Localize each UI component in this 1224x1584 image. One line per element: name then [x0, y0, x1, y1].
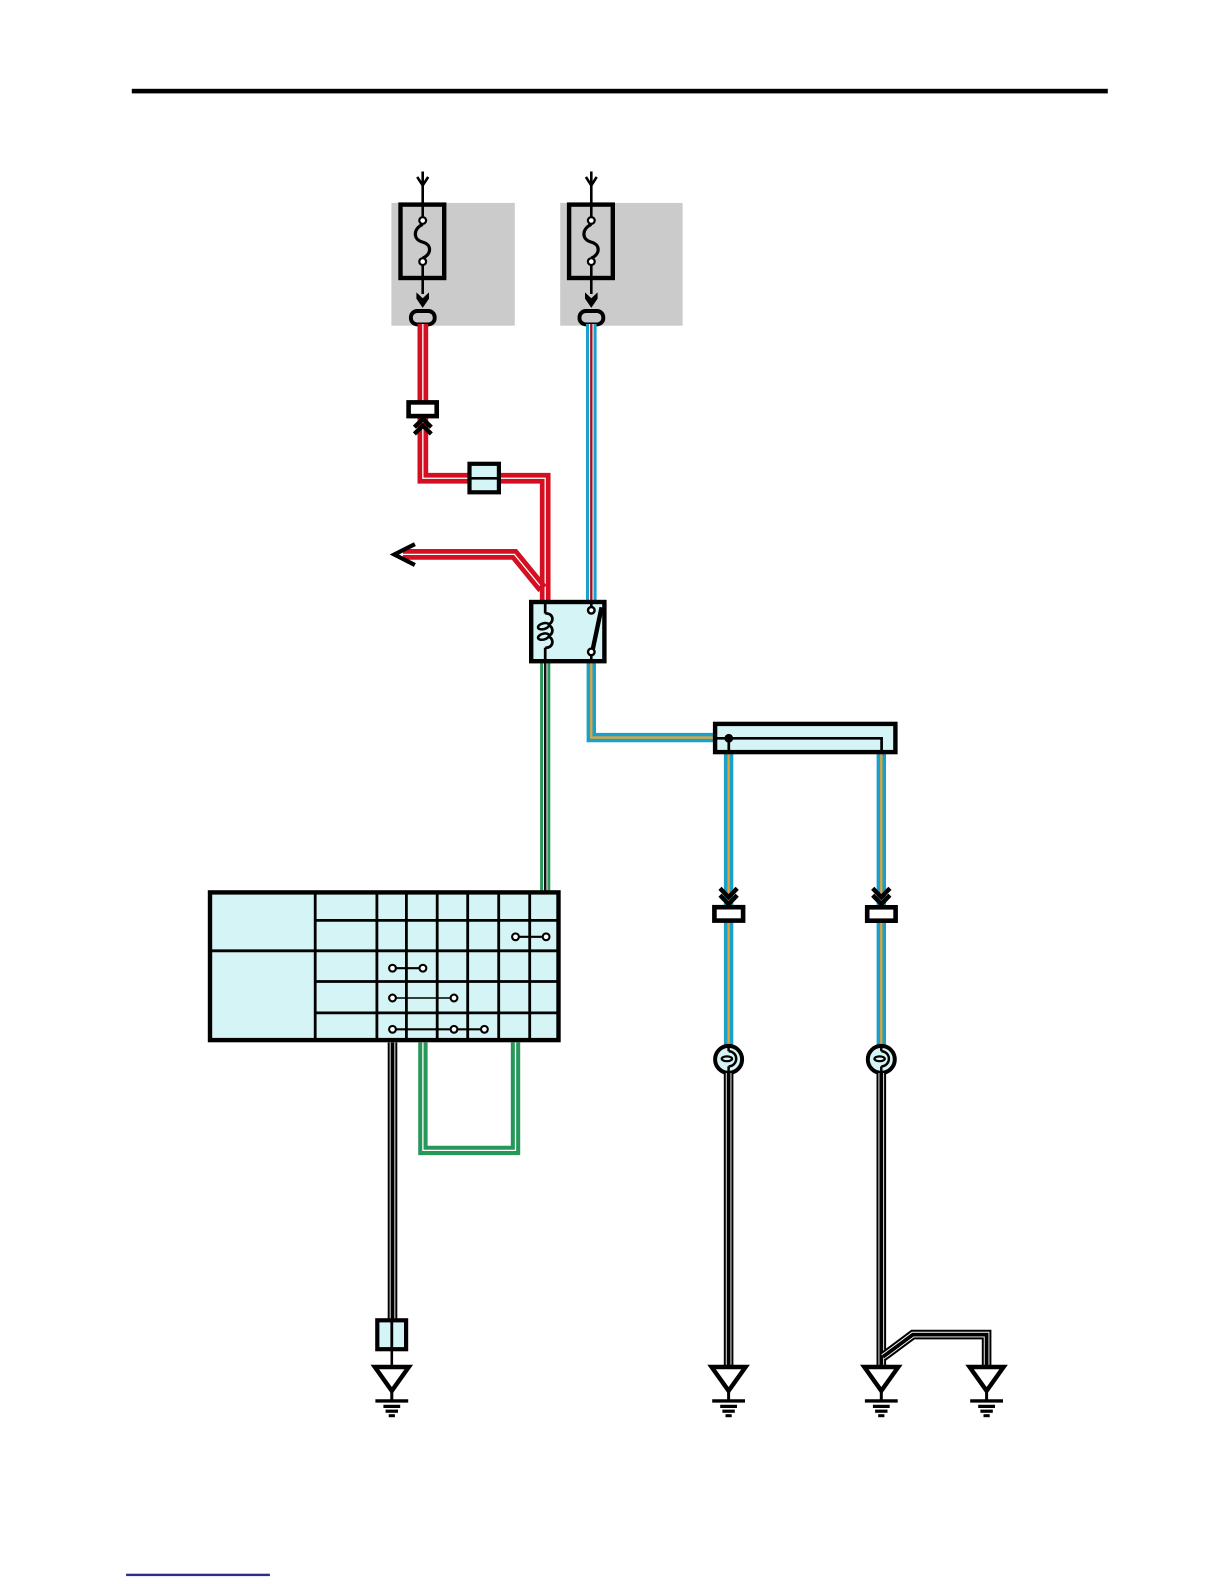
ground 4 — [970, 1367, 1004, 1416]
wire: W-B branch to ground 4 — [883, 1335, 987, 1366]
connector chevrons bulb 1 — [720, 888, 737, 897]
wire: W-B (meter to ground connector) — [388, 1043, 398, 1322]
chevrons up — [414, 419, 431, 427]
wire: fuse 2 output — [590, 265, 593, 294]
relay contact — [590, 602, 593, 606]
connector oval 2 — [580, 311, 604, 324]
arrow into fuse 1 — [417, 177, 428, 186]
relay coil — [544, 602, 547, 614]
connector box bulb 2 — [867, 907, 895, 920]
arrow to other system (left) — [394, 544, 415, 565]
ground 1 — [375, 1367, 409, 1416]
wire: ground lead — [390, 1349, 393, 1366]
fuse block 1 (gray) — [391, 203, 514, 326]
ground connector box (bottom left) — [377, 1320, 406, 1349]
wire: L-Y drop right (junction to bulb 2) — [877, 753, 886, 1047]
arrow into fuse 2 — [586, 177, 597, 186]
wire: L-R (fuse2 to relay contact) — [586, 324, 597, 610]
wire: feed into fuse 1 — [421, 172, 424, 220]
wire: fuse 1 output — [421, 265, 424, 294]
connector chevrons bulb 2 — [873, 888, 890, 897]
wire: feed into fuse 2 — [590, 172, 593, 220]
fuse block 2 (gray) — [560, 203, 682, 326]
wire: W-B bulb 1 to ground — [724, 1073, 734, 1366]
contact row3 — [393, 967, 423, 969]
junction block J/C — [715, 724, 895, 752]
relay — [531, 602, 604, 661]
connector box on red wire — [409, 402, 437, 416]
wire: green U loop — [423, 1043, 516, 1151]
arrowhead into connector 2 — [585, 292, 598, 308]
contact row2 — [516, 936, 547, 938]
connector oval 1 — [411, 311, 435, 324]
junction connector (small cyan) on red wire — [470, 464, 499, 493]
bulb 1 — [715, 1046, 742, 1073]
combination meter (table) — [209, 891, 560, 1042]
wire: L-Y (relay contact to junction box) — [591, 656, 714, 738]
fuse F2 — [569, 205, 613, 278]
footer link line — [126, 1574, 270, 1576]
bulb 2 — [868, 1046, 895, 1073]
ground 2 — [712, 1367, 746, 1416]
contact row5 — [393, 1028, 485, 1030]
contact row4 — [393, 997, 455, 999]
top rule — [132, 89, 1108, 94]
wire: W-B bulb 2 to ground — [876, 1073, 886, 1366]
wire: red R branch to left arrow — [403, 554, 543, 588]
fuse F1 — [401, 205, 445, 278]
wire: L-Y drop left (junction to bulb 1) — [724, 753, 733, 1047]
arrowhead into connector 1 — [416, 292, 429, 308]
ground 3 — [864, 1367, 898, 1416]
wire: red R main (fuse1 to relay coil) — [423, 324, 545, 602]
connector box bulb 1 — [714, 907, 743, 920]
wire: G-B (relay coil to meter) — [540, 661, 550, 892]
